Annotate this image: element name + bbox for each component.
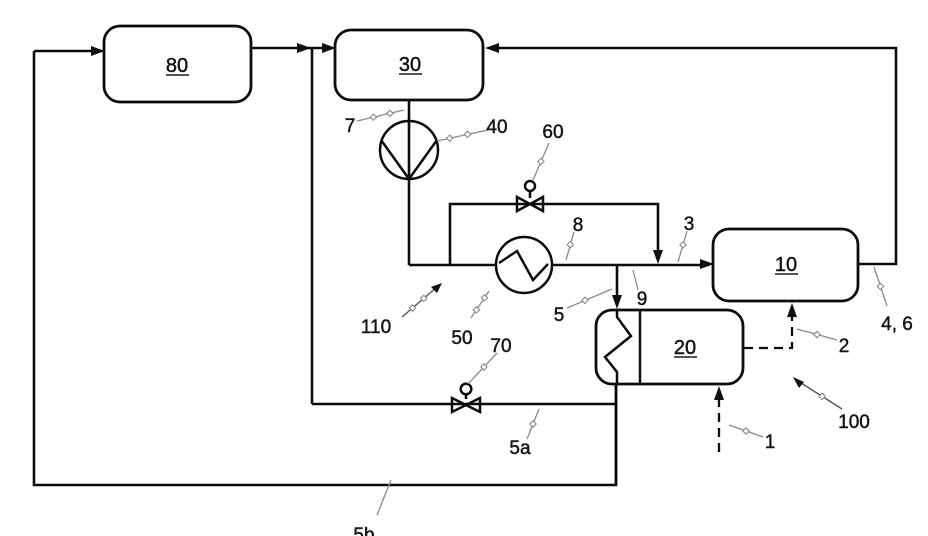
svg-text:10: 10: [775, 254, 797, 276]
leader diamonds: [370, 110, 884, 434]
svg-text:5a: 5a: [509, 438, 531, 459]
leader arrow 100: [793, 377, 842, 409]
wire junction vertical (down to valve 70 line): [311, 48, 314, 404]
leader 9: [633, 270, 638, 290]
leader 8: [566, 232, 574, 260]
wire pump vertical from box 30: [408, 100, 411, 265]
svg-text:60: 60: [542, 122, 563, 143]
svg-text:8: 8: [573, 215, 584, 236]
arrow dashed 1 up: [714, 386, 724, 400]
wire box 80 to box 30: [251, 47, 330, 50]
svg-text:40: 40: [486, 117, 507, 138]
arrow into box 10: [700, 259, 714, 269]
wire main line to box 10: [409, 264, 709, 267]
leader 50: [471, 291, 489, 318]
svg-text:4, 6: 4, 6: [881, 314, 913, 335]
leader 4,6: [874, 267, 887, 306]
leader 3: [678, 231, 687, 262]
svg-text:110: 110: [361, 317, 391, 338]
arrow into box 30 right: [485, 43, 499, 53]
wire below box 20: [615, 384, 618, 485]
svg-text:20: 20: [674, 337, 696, 359]
leader 5: [567, 289, 612, 308]
arrow into box 80: [91, 46, 105, 56]
heat exchanger 50: [496, 237, 552, 293]
wire into box 80: [34, 50, 98, 53]
leader 5a: [527, 409, 539, 439]
svg-text:5b: 5b: [353, 525, 374, 536]
svg-text:2: 2: [839, 336, 850, 357]
box 20 divider: [639, 310, 642, 384]
box 10: [713, 229, 858, 301]
box 20 coil zigzag: [605, 310, 631, 384]
arrow into box 20 top: [612, 295, 622, 309]
valve 60: [517, 181, 543, 211]
leader 60: [533, 143, 549, 180]
svg-text:50: 50: [451, 328, 472, 349]
leader 70: [468, 353, 497, 384]
svg-text:100: 100: [838, 412, 870, 433]
valve 70: [452, 384, 480, 412]
arrow into box 30 left: [322, 43, 336, 53]
wire branch down to box 20: [616, 265, 619, 302]
arrowheads: [91, 43, 797, 400]
box 20: [596, 310, 743, 384]
arrow before junction: [297, 43, 311, 53]
arrow bypass down: [653, 250, 663, 264]
svg-text:80: 80: [166, 55, 188, 77]
svg-text:30: 30: [399, 54, 421, 76]
wire 5a through valve 70: [312, 403, 616, 406]
leader 7: [357, 110, 404, 121]
dashed control line 1: [718, 390, 720, 452]
wire bypass around heat exchanger: [450, 204, 658, 265]
leader arrow 110: [402, 283, 442, 317]
box 30: [335, 30, 483, 100]
leader 40: [437, 130, 488, 141]
wire left loop (bottom 5b path): [34, 51, 616, 485]
dashed control line 2: [744, 307, 792, 348]
leader 2: [797, 329, 837, 340]
box 80: [104, 26, 251, 102]
svg-text:3: 3: [684, 214, 695, 235]
svg-text:70: 70: [490, 336, 511, 357]
svg-text:5: 5: [554, 305, 565, 326]
leader 1: [729, 425, 763, 437]
svg-text:7: 7: [345, 116, 356, 137]
svg-text:9: 9: [637, 289, 648, 310]
wire feedback top (10 to 30): [490, 48, 896, 264]
arrow dashed 2 up: [787, 303, 797, 317]
svg-text:1: 1: [765, 432, 776, 453]
pump 40: [380, 121, 438, 179]
leader 5b: [377, 480, 391, 515]
leader lines: [357, 110, 887, 515]
